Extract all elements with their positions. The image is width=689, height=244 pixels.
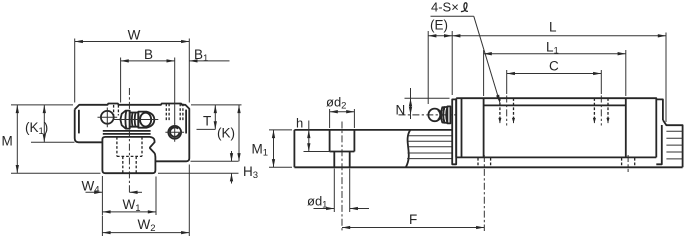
dim M	[11, 104, 73, 106]
dim T	[197, 128, 216, 130]
rail right end block with chamfer	[663, 120, 683, 167]
dim B	[120, 58, 122, 103]
dim od2	[329, 109, 331, 128]
hidden rail through hole dashed front	[123, 156, 136, 173]
nipple horizontal centerline	[113, 119, 159, 121]
svg-text:B: B	[144, 47, 153, 62]
ball circle crosshair	[98, 108, 118, 128]
svg-text:(K1): (K1)	[25, 120, 48, 137]
svg-text:T: T	[203, 114, 211, 129]
svg-text:L: L	[549, 20, 557, 35]
carriage left side and flange bottom	[75, 109, 103, 142]
rail side view bottom edge	[294, 166, 682, 168]
svg-text:4-S×: 4-S×	[431, 0, 459, 15]
hidden rail hole 3 under carriage	[622, 158, 635, 167]
dim K	[191, 104, 242, 106]
svg-text:(K): (K)	[217, 126, 235, 141]
rail hole 2 centerline	[483, 155, 485, 231]
carriage right chamfer inner edge line	[185, 110, 187, 134]
left end cap line	[461, 98, 463, 157]
dim F	[342, 227, 484, 229]
svg-text:ød2: ød2	[326, 95, 346, 112]
svg-text:M: M	[2, 134, 13, 149]
dim E	[427, 31, 429, 104]
svg-text:W2: W2	[138, 217, 156, 234]
rail right end block lines	[666, 131, 682, 159]
script ell glyph	[461, 3, 468, 12]
rail counterbore section	[330, 130, 355, 152]
dim W4	[101, 176, 103, 215]
ball circle left	[101, 111, 114, 124]
dim L1	[483, 50, 485, 96]
carriage side view outline	[456, 98, 656, 157]
rail cross-section outline	[102, 137, 155, 173]
carriage body top edge line	[484, 104, 626, 106]
nipple base washer	[447, 106, 450, 123]
svg-text:W1: W1	[123, 197, 141, 214]
svg-text:W4: W4	[82, 178, 100, 195]
nipple dome tip outline	[138, 112, 154, 128]
right body joint line	[625, 98, 627, 157]
carriage block front view outline	[75, 104, 190, 162]
svg-text:C: C	[549, 59, 559, 74]
svg-text:(E): (E)	[430, 18, 448, 33]
dim K1	[31, 141, 75, 143]
dim H3	[191, 160, 239, 162]
nipple thread ridge arcs	[132, 113, 136, 127]
hidden tapped holes top left dashed	[114, 105, 119, 116]
carriage left chamfer inner edge line	[78, 110, 80, 134]
rail side view top edge	[294, 129, 452, 131]
grease nipple front view hex body	[120, 111, 129, 129]
svg-text:h: h	[296, 116, 303, 131]
dim B1	[189, 60, 229, 62]
hidden tapped holes top right dashed	[166, 104, 183, 121]
left body joint line	[483, 98, 485, 157]
grease nipple side view - ball head circle	[428, 109, 441, 122]
front face tapped hole right	[168, 126, 181, 139]
rail through hole section	[334, 152, 349, 168]
svg-text:L1: L1	[546, 40, 559, 57]
dim W1	[155, 177, 157, 216]
hidden tapped hole 1 side view	[500, 98, 514, 118]
nipple centerline side	[399, 114, 457, 116]
hidden rail hole 2 under carriage	[478, 158, 491, 167]
nipple neck band arcs	[441, 107, 445, 123]
svg-text:H3: H3	[243, 164, 258, 181]
nipple thread section	[130, 113, 139, 127]
dim L	[451, 31, 453, 95]
rail left end face	[293, 130, 295, 167]
dim N	[405, 97, 450, 99]
svg-text:B1: B1	[194, 47, 208, 64]
rail break squiggle	[406, 130, 411, 167]
dim h	[304, 151, 332, 153]
carriage recess edge lines above rail	[103, 131, 151, 134]
svg-text:F: F	[409, 212, 417, 227]
right end seal plate	[656, 99, 663, 120]
tapped hole crosshair	[165, 123, 184, 142]
dim W2	[101, 216, 103, 237]
nipple sphere circle	[140, 113, 151, 127]
nipple hex facet line	[124, 111, 127, 128]
dim M1	[269, 129, 292, 131]
dim od1	[333, 169, 335, 213]
dim W	[74, 39, 76, 103]
svg-text:M1: M1	[252, 142, 269, 159]
left end seal plate	[452, 99, 456, 164]
hidden rail counterbore dashed front	[117, 137, 142, 157]
rail hole centerline	[341, 122, 343, 232]
rail groove lines left of carriage	[407, 136, 452, 159]
dim C	[506, 70, 508, 94]
front view vertical centerline	[128, 88, 130, 194]
svg-text:ød1: ød1	[307, 194, 327, 211]
svg-text:N: N	[396, 103, 406, 118]
right seal lower edge	[656, 125, 662, 164]
hidden tapped hole 2 side view	[594, 98, 608, 118]
svg-text:W: W	[128, 27, 141, 42]
